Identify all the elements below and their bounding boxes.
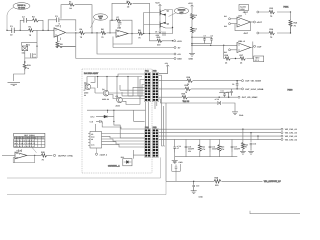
svg-text:OUT_VID_SOMA: OUT_VID_SOMA: [245, 80, 261, 83]
wire row1: [259, 11, 291, 13]
note box NB2: [254, 56, 264, 62]
ground G4: [172, 161, 183, 164]
wire mid cluster top: [87, 110, 146, 138]
wire row AGND: [60, 46, 174, 58]
transistor Q2: [160, 22, 170, 29]
svg-text:1M .1 75 1K .1 75 10 1K 75: 1M .1 75 1K .1 75 10 1K 75: [14, 142, 35, 145]
node rail2 b: [191, 43, 192, 44]
node N1: [20, 30, 21, 31]
svg-text:PT 2: PT 2: [255, 59, 259, 62]
node rail2 a: [191, 37, 192, 38]
pin VID_OUT_R3: [281, 135, 298, 138]
node bus c: [116, 76, 117, 77]
node rowC a: [219, 97, 220, 98]
led box DS1: [121, 156, 132, 166]
capacitor C14 polarized: [173, 145, 180, 153]
node right rail top: [290, 11, 291, 12]
pin OUT_VID_A: [242, 80, 262, 83]
capacitor C19: [192, 181, 199, 190]
pin OUT_VID_B: [242, 88, 264, 91]
power +12V arrow: [155, 2, 161, 9]
frame line outer: [7, 181, 166, 194]
svg-text:DS1: DS1: [121, 156, 125, 159]
wire filter drops: [175, 129, 258, 157]
svg-text:+2.5: +2.5: [173, 161, 177, 164]
pin IN3: [224, 49, 237, 54]
svg-text:GND: GND: [189, 58, 194, 61]
svg-text:04: 04: [84, 94, 86, 97]
op-amp U1A: [54, 23, 66, 43]
pin IN1+: [224, 15, 237, 20]
transistor Q3: [84, 81, 91, 96]
wire op4 out: [251, 42, 253, 48]
svg-text:C8: C8: [211, 34, 213, 37]
op-amp U2B: [237, 40, 251, 53]
resistor R3: [69, 0, 74, 10]
svg-text:08: 08: [91, 138, 93, 141]
svg-text:DA BRD ASSY: DA BRD ASSY: [84, 72, 99, 75]
wire filter rail bottom: [175, 145, 238, 161]
wire left verticals to filters: [159, 75, 166, 181]
svg-text:75: 75: [185, 91, 187, 94]
wire row -5V: [113, 47, 174, 49]
svg-text:IN2: IN2: [224, 25, 227, 28]
svg-text:OUT_VID_SOMC: OUT_VID_SOMC: [242, 96, 258, 99]
wire to gnd: [14, 71, 25, 81]
transistor Q4: [102, 88, 109, 101]
svg-text:OUTPUT_SYNC: OUTPUT_SYNC: [58, 155, 73, 158]
capacitor C6: [31, 53, 36, 59]
ground G1: [8, 83, 21, 86]
svg-text:GND: GND: [177, 58, 182, 61]
node N6: [96, 32, 97, 33]
svg-text:C9: C9: [232, 83, 234, 86]
svg-text:75 10 1K .1 75 10 1K 75 .1: 75 10 1K .1 75 10 1K 75 .1: [14, 139, 34, 142]
wire op2 output: [128, 33, 166, 35]
node mid b: [113, 110, 114, 111]
wire row +5V: [97, 33, 174, 54]
node N14: [210, 45, 211, 46]
capacitor C12: [215, 98, 221, 105]
resistor R15: [289, 20, 298, 33]
wire OUT_VID row B: [159, 88, 242, 90]
resistor R12: [191, 14, 197, 20]
node N15: [223, 45, 224, 46]
svg-text:+12V: +12V: [155, 2, 160, 5]
ground G6: [248, 148, 254, 154]
svg-text:U2B +5: U2B +5: [238, 40, 246, 43]
wire q5 out: [91, 77, 145, 105]
dashed module box DAC: [82, 69, 152, 173]
wire bottom out row: [166, 180, 263, 182]
resistor R5 feedback low: [56, 36, 64, 49]
resistor R10: [157, 36, 162, 46]
wire transistor bases: [144, 13, 160, 34]
node N9: [131, 33, 132, 34]
capacitor C17: [231, 145, 241, 152]
svg-text:R3: R3: [69, 0, 71, 3]
capacitor C15: [185, 145, 195, 152]
svg-text:2N39: 2N39: [116, 104, 120, 107]
svg-text:+C12: +C12: [215, 98, 219, 101]
svg-text:GND: GND: [239, 114, 244, 117]
svg-text:C5: C5: [155, 31, 157, 34]
svg-text:-12V: -12V: [155, 34, 160, 37]
capacitor C9: [232, 81, 238, 89]
capacitor C11: [219, 90, 229, 98]
svg-text:Q5: Q5: [116, 95, 118, 98]
resistor R7: [116, 16, 121, 22]
ground G3: [232, 112, 244, 117]
svg-text:IN1: IN1: [224, 15, 227, 18]
node N8: [111, 20, 112, 21]
svg-text:CHANNEL_A: CHANNEL_A: [108, 164, 120, 167]
wire emitters: [166, 10, 173, 29]
node right rail bottom: [290, 32, 291, 33]
svg-text:-OUT: -OUT: [257, 46, 263, 49]
svg-text:75: 75: [245, 146, 247, 149]
resistor R8 top: [127, 0, 132, 8]
note box NB1: [239, 5, 249, 16]
svg-text:GND: GND: [199, 195, 204, 198]
svg-text:X2: X2: [99, 17, 101, 20]
wire ic stairs to header2: [96, 124, 145, 147]
node N4: [75, 32, 76, 33]
svg-text:+2.5: +2.5: [89, 120, 93, 123]
wire row2: [259, 32, 291, 34]
svg-text:75 OHM: 75 OHM: [18, 6, 25, 9]
resistor R1: [29, 26, 34, 37]
pin VID_OUT_R4: [281, 138, 298, 141]
wire bias下: [25, 46, 37, 62]
power +12V arrow rail2: [188, 2, 193, 10]
node op5 out: [34, 155, 35, 156]
node N11: [36, 46, 37, 47]
wire branch up: [20, 20, 43, 30]
wire stage2 feedback top: [110, 3, 150, 33]
wire feedback C loop top: [48, 20, 76, 31]
resistor R17: [240, 54, 246, 64]
wire OUT_VID row C: [159, 96, 238, 98]
wire bus rows: [159, 129, 281, 139]
pin OUT4: [253, 45, 262, 48]
svg-text:OUT_SYNC_SOMB: OUT_SYNC_SOMB: [245, 88, 264, 91]
resistor R22: [198, 145, 206, 152]
svg-text:VID_OUTPUT_LF: VID_OUTPUT_LF: [264, 180, 282, 183]
wire op4 feedback rail: [224, 45, 254, 58]
capacitor C8: [210, 34, 213, 42]
node bottom row: [193, 181, 194, 182]
svg-text:C7: C7: [204, 34, 206, 37]
svg-text:04: 04: [107, 98, 109, 101]
wire +2.5 row: [150, 34, 173, 41]
pin -5V: [174, 47, 181, 50]
header P1 pins: [145, 73, 158, 101]
svg-text:VID_CH2_A4: VID_CH2_A4: [285, 138, 298, 141]
wire decouple branch: [192, 37, 212, 43]
svg-text:0.1: 0.1: [34, 56, 37, 59]
pin +OUT row1: [243, 11, 259, 14]
title block corner: [250, 211, 300, 214]
node fb: [235, 58, 236, 59]
capacitor C4: [118, 23, 122, 28]
wire to transistor node: [166, 28, 173, 34]
transistor Q1: [160, 9, 170, 16]
node N13: [191, 45, 192, 46]
node N12: [24, 61, 25, 62]
resistor R18: [187, 76, 193, 86]
capacitor C10: [227, 89, 233, 96]
wire DAC top bus: [87, 77, 142, 101]
svg-text:P2B: P2B: [153, 126, 157, 129]
pin AGND: [174, 58, 182, 61]
wire OUT_VID row A: [159, 80, 242, 82]
svg-text:U3: U3: [91, 133, 93, 136]
wire q4 out: [109, 95, 145, 99]
svg-text:1k: 1k: [27, 67, 29, 70]
svg-text:R7: R7: [117, 16, 119, 19]
power -12V arrow: [155, 28, 161, 37]
svg-text:C19: C19: [196, 185, 199, 188]
pin VID_OUT_R2: [281, 132, 298, 135]
svg-text:P1B: P1B: [153, 70, 157, 73]
resistor R14: [269, 28, 275, 39]
svg-text:R21 75: R21 75: [183, 100, 189, 103]
wire input net: [7, 29, 54, 31]
resistor R21b: [191, 27, 197, 33]
wire op5 out: [28, 154, 53, 156]
capacitor C18: [250, 143, 256, 149]
svg-text:CR 2: CR 2: [90, 116, 94, 119]
resistor R23: [218, 145, 225, 152]
svg-text:C11: C11: [221, 90, 224, 93]
svg-text:+OUT: +OUT: [257, 21, 263, 24]
wire led link: [133, 150, 145, 159]
resistor R26: [214, 177, 221, 187]
resistor R9: [138, 29, 143, 40]
pin VID_OUT_R1: [281, 128, 298, 131]
bracket +2.5 cap: [172, 161, 181, 181]
capacitor C3: [55, 15, 59, 22]
resistor R19: [185, 84, 191, 94]
svg-text:GND: GND: [179, 161, 184, 164]
svg-text:P600: P600: [288, 89, 294, 92]
node rowD: [219, 102, 220, 103]
svg-text:R G B U1 C4 L8 R2 C7 R9 O: R G B U1 C4 L8 R2 C7 R9 O: [14, 137, 37, 140]
pin OUTPUT_B: [53, 154, 73, 157]
frame line inner: [7, 157, 161, 178]
pin -OUT row2: [243, 32, 259, 35]
wire op1 output: [66, 32, 101, 34]
diode CR2: [90, 115, 114, 118]
wire feedback low loop: [58, 33, 76, 59]
op-amp U1B: [116, 26, 128, 37]
transistor Q5: [116, 95, 123, 108]
capacitor C2: [22, 15, 26, 22]
svg-text:ADDR_2: ADDR_2: [100, 153, 108, 156]
header P1: [144, 70, 158, 102]
wire header1 left fan: [84, 74, 145, 96]
svg-text:P1A: P1A: [145, 70, 149, 73]
node filter rows: [242, 129, 243, 130]
pin IN2: [224, 23, 237, 28]
node N2: [42, 30, 43, 31]
svg-text:+: +: [19, 154, 20, 156]
pin +2.5V out: [174, 40, 183, 43]
wire op3 feedback: [235, 22, 251, 31]
ground G7: [191, 191, 204, 199]
node base: [143, 33, 144, 34]
node N7: [109, 32, 110, 33]
node bus d: [127, 76, 128, 77]
wire stage2 low feedback: [113, 34, 132, 48]
callout balloon note 2: [91, 14, 108, 28]
node mid c: [113, 121, 114, 122]
wire op3 out: [251, 21, 254, 23]
node N5: [91, 32, 92, 33]
svg-text:-OUT: -OUT: [243, 32, 249, 35]
wire op5 feedback: [13, 155, 35, 162]
node mid a: [107, 110, 108, 111]
node N3: [48, 30, 49, 31]
resistor R11: [23, 62, 31, 71]
svg-text:R8: R8: [127, 0, 129, 3]
wire right rail: [290, 12, 292, 20]
wire op5 input: [2, 154, 15, 156]
capacitor C5: [155, 31, 165, 36]
ground G2: [189, 53, 196, 61]
wire bias branch: [22, 30, 37, 46]
svg-text:C4: C4: [118, 25, 120, 28]
wire header links between: [146, 102, 157, 129]
header P2: [144, 126, 158, 157]
resistor R2: [32, 15, 39, 22]
header P2 pins: [145, 129, 158, 156]
wire to op2: [107, 32, 117, 34]
power arrow header1: [159, 62, 170, 74]
resistor R6: [101, 28, 106, 39]
pin OUT_VID_C: [238, 96, 258, 99]
node +2.5V: [172, 40, 173, 41]
svg-text:+12V: +12V: [188, 2, 193, 5]
node rowC b: [228, 97, 229, 98]
svg-text:C18: C18: [253, 143, 256, 146]
capacitor C7: [203, 34, 206, 42]
svg-text:VID_CH2_A3: VID_CH2_A3: [285, 135, 298, 138]
reference table T1: [14, 133, 45, 153]
capacitor C1: [10, 25, 14, 36]
wire feedback R loop outer: [61, 5, 92, 33]
svg-text:1000PF: 1000PF: [234, 148, 241, 151]
pin OUT3: [253, 21, 262, 24]
wire q3 out: [91, 88, 145, 93]
capacitor C16: [209, 145, 219, 152]
node bus a: [97, 76, 98, 77]
svg-text:+2.5V: +2.5V: [177, 40, 183, 43]
svg-text:10k: 10k: [22, 51, 25, 54]
resistor R20: [182, 92, 188, 102]
node input start: [6, 30, 7, 31]
svg-text:2N39: 2N39: [102, 98, 106, 101]
wire row to op4: [192, 44, 237, 46]
svg-text:+OUT: +OUT: [243, 11, 249, 14]
pin addr: [95, 148, 107, 156]
node emitters: [172, 27, 173, 28]
capacitor C13: [89, 120, 102, 124]
svg-text:IN3: IN3: [224, 51, 227, 54]
svg-text:VID_CH1_A1: VID_CH1_A1: [285, 128, 298, 131]
ground G5: [240, 150, 246, 154]
op-amp U2A: [237, 14, 251, 27]
pin +5V: [174, 53, 181, 56]
callout balloon note 3: [169, 8, 189, 17]
svg-text:U2A: U2A: [238, 14, 243, 17]
node N10: [149, 33, 150, 34]
resistor R25: [41, 151, 47, 162]
svg-text:10 75 1K 75 .1 1K 75 10 .1: 10 75 1K 75 .1 1K 75 10 .1: [14, 145, 34, 148]
resistor R4: [80, 28, 85, 39]
wire rail2: [191, 10, 193, 54]
node bus b: [106, 76, 107, 77]
svg-text:4.7: 4.7: [177, 147, 180, 150]
IC box U3: [88, 132, 102, 149]
svg-text:Q4: Q4: [102, 88, 104, 91]
resistor R16: [225, 54, 231, 64]
wire row D: [159, 99, 235, 111]
resistor R24: [241, 143, 247, 151]
svg-text:P601: P601: [284, 6, 290, 9]
resistor R13: [269, 7, 275, 18]
svg-text:VID_CH1_A2: VID_CH1_A2: [285, 132, 298, 135]
op-amp U4: [15, 149, 27, 159]
node rowB: [236, 88, 237, 89]
node rowA: [236, 80, 237, 81]
svg-text:C6: C6: [34, 53, 36, 56]
trimmer RV1: [22, 43, 31, 54]
callout balloon note 1: [7, 3, 30, 31]
